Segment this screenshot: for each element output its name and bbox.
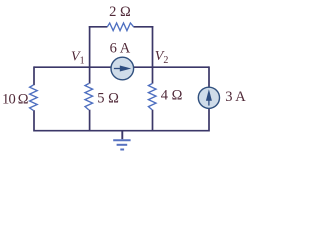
wire: top branch left stub: [89, 26, 108, 28]
svg-text:6 A: 6 A: [110, 41, 131, 57]
resistor R1 2-ohm (horizontal zigzag, top branch): [107, 23, 133, 31]
wire: top branch right stub: [134, 26, 154, 28]
svg-text:10 Ω: 10 Ω: [2, 92, 29, 108]
resistor R3 5-ohm (vertical zigzag, V1 branch): [85, 84, 93, 110]
svg-text:5 Ω: 5 Ω: [97, 91, 119, 107]
current source I1 6A (circle with right arrow): [111, 57, 134, 80]
wire: right vertical 3A branch: [208, 66, 210, 131]
resistor R2 10-ohm (vertical zigzag, left branch): [30, 85, 38, 110]
svg-text:3 A: 3 A: [225, 89, 246, 105]
ground: [113, 131, 130, 150]
svg-text:2 Ω: 2 Ω: [109, 4, 131, 20]
wire: middle horizontal rail V1-V2: [34, 66, 209, 68]
resistor R4 4-ohm (vertical zigzag, V2 branch): [148, 84, 156, 110]
current source I2 3A (circle with up arrow): [198, 87, 219, 108]
wire: bottom horizontal ground rail: [34, 130, 209, 132]
wire: node V2 vertical upper: [152, 26, 154, 84]
wire: left vertical below 10-ohm: [33, 110, 35, 131]
svg-text:4 Ω: 4 Ω: [161, 88, 183, 104]
wire: node V1 vertical lower: [89, 110, 91, 132]
wire: node V1 vertical upper: [89, 26, 91, 84]
wire: node V2 vertical lower: [152, 110, 154, 132]
wire: left vertical above 10-ohm: [33, 66, 35, 85]
